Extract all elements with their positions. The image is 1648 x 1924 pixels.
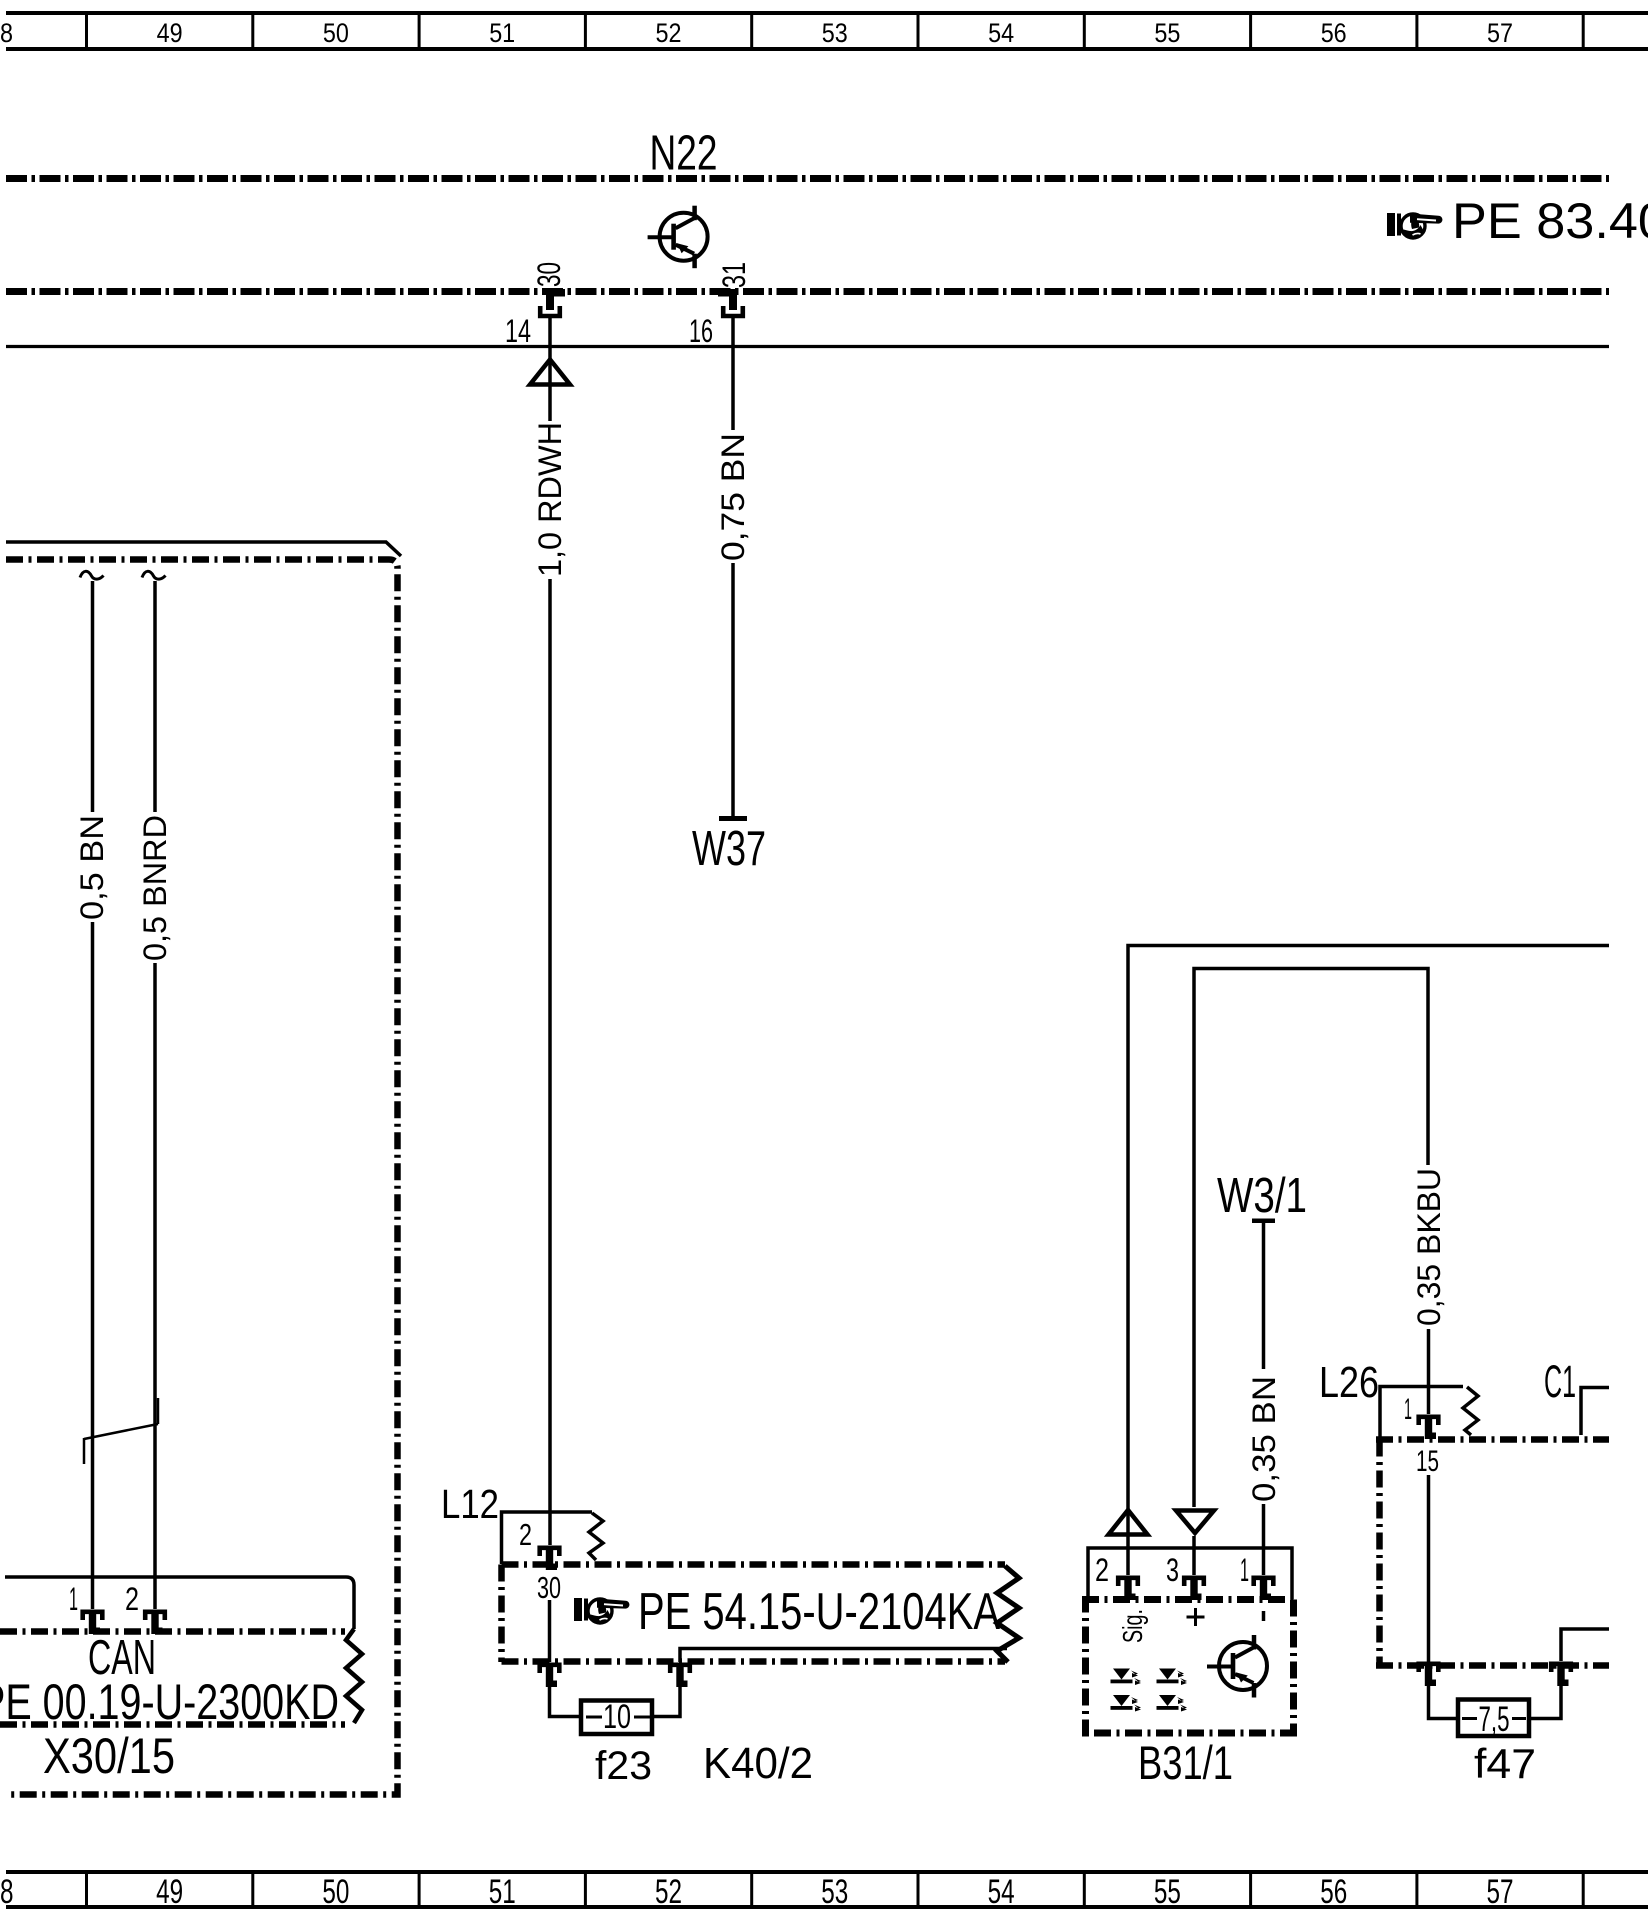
svg-text:N22: N22 bbox=[650, 127, 718, 181]
svg-text:B31/1: B31/1 bbox=[1138, 1736, 1233, 1789]
pin 1 connector L26 bbox=[1419, 1417, 1439, 1439]
svg-text:W37: W37 bbox=[692, 822, 766, 876]
pin 31 connector bbox=[718, 289, 743, 316]
svg-text:7,5: 7,5 bbox=[1479, 1700, 1510, 1739]
B31/1 connector housing bbox=[1088, 1548, 1292, 1599]
wire B31/1 pin3 feed bbox=[1194, 969, 1428, 1508]
svg-text:30: 30 bbox=[531, 262, 567, 287]
svg-text:14: 14 bbox=[505, 313, 531, 349]
transistor symbol B31/1 bbox=[1207, 1635, 1267, 1698]
bus line N22 lower bbox=[6, 288, 1609, 295]
svg-text:56: 56 bbox=[1321, 18, 1347, 48]
svg-text:31: 31 bbox=[716, 262, 752, 288]
svg-text:53: 53 bbox=[822, 18, 848, 48]
svg-text:51: 51 bbox=[489, 18, 515, 48]
wire to CAN strip bbox=[5, 1577, 354, 1629]
svg-text:50: 50 bbox=[323, 18, 349, 48]
B31/1 dash-dot box bbox=[1082, 1600, 1297, 1737]
svg-text:49: 49 bbox=[156, 1873, 183, 1911]
svg-text:57: 57 bbox=[1487, 1873, 1514, 1911]
CAN harness strip top bbox=[0, 1628, 345, 1635]
svg-text:Sig.: Sig. bbox=[1117, 1609, 1148, 1643]
pin connector f47 left bbox=[1419, 1664, 1439, 1686]
wire to fuse f47 right bbox=[1529, 1686, 1561, 1719]
svg-text:X30/15: X30/15 bbox=[43, 1728, 175, 1784]
LED row 1 bbox=[1111, 1669, 1142, 1686]
svg-text:PE 54.15-U-2104KA: PE 54.15-U-2104KA bbox=[638, 1583, 1000, 1641]
terminal bar W37 bbox=[719, 816, 747, 821]
svg-text:48: 48 bbox=[0, 18, 13, 48]
fuse f47 bbox=[1458, 1700, 1529, 1737]
direction arrow down bbox=[1176, 1511, 1214, 1534]
wire along X30/15 box top bbox=[6, 542, 401, 556]
K40/2 jagged edge bbox=[997, 1566, 1019, 1662]
bottom ruler numbers bbox=[0, 1873, 1514, 1911]
CAN harness strip bottom bbox=[0, 1721, 345, 1728]
C1 box corner bbox=[1581, 1388, 1609, 1436]
wire 0,35 BKBU lower segment bbox=[1427, 1329, 1431, 1414]
K40/2 dash-dot box bbox=[502, 1565, 1006, 1663]
LED row 2 bbox=[1111, 1695, 1142, 1712]
wire 0,75 BN bbox=[731, 316, 735, 430]
svg-text:C1: C1 bbox=[1544, 1356, 1576, 1407]
svg-text:56: 56 bbox=[1320, 1873, 1347, 1911]
svg-text:2: 2 bbox=[125, 1581, 139, 1617]
svg-text:15: 15 bbox=[1416, 1445, 1439, 1478]
svg-text:0,5 BN: 0,5 BN bbox=[74, 815, 110, 920]
wire to fuse f23 left bbox=[550, 1687, 582, 1717]
svg-text:0,35 BN: 0,35 BN bbox=[1246, 1376, 1282, 1502]
svg-text:3: 3 bbox=[1166, 1552, 1179, 1588]
wire to fuse f23 right bbox=[652, 1687, 680, 1717]
wire 0,5 BNRD bbox=[153, 581, 157, 812]
top ruler bbox=[6, 11, 1648, 51]
svg-text:1: 1 bbox=[69, 1581, 78, 1617]
svg-text:0,75 BN: 0,75 BN bbox=[715, 433, 751, 561]
wire 0,35 BN bbox=[1262, 1223, 1266, 1369]
pin connector K40/2 right bbox=[670, 1665, 690, 1687]
wire to fuse f47 left bbox=[1429, 1686, 1459, 1719]
pin 1 connector B31/1 bbox=[1254, 1578, 1274, 1600]
svg-text:1,0 RDWH: 1,0 RDWH bbox=[532, 422, 568, 577]
pin connector f47 right bbox=[1551, 1664, 1571, 1686]
CAN strip jagged edge bbox=[346, 1629, 362, 1723]
L12 box bbox=[502, 1512, 593, 1564]
wire inside lower-right box bbox=[1427, 1475, 1431, 1666]
pin 2 connector X30/15 bbox=[145, 1612, 165, 1634]
hand icon PE 83.40 bbox=[1387, 213, 1442, 238]
crossover jog bbox=[84, 1398, 158, 1464]
pin connector K40/2 left bbox=[540, 1665, 560, 1687]
svg-text:f47: f47 bbox=[1474, 1740, 1536, 1787]
twisted-pair squiggle wire 1 bbox=[80, 571, 104, 579]
svg-text:50: 50 bbox=[322, 1873, 349, 1911]
svg-text:54: 54 bbox=[988, 1873, 1015, 1911]
L26 box bbox=[1380, 1387, 1463, 1440]
svg-text:K40/2: K40/2 bbox=[703, 1739, 813, 1788]
svg-text:52: 52 bbox=[655, 1873, 682, 1911]
top ruler numbers bbox=[0, 18, 1513, 48]
pin 30 connector bbox=[540, 289, 565, 316]
svg-text:16: 16 bbox=[689, 313, 713, 349]
svg-text:W3/1: W3/1 bbox=[1217, 1169, 1307, 1223]
svg-text:1: 1 bbox=[1404, 1393, 1412, 1426]
svg-text:48: 48 bbox=[0, 1873, 14, 1911]
wire 1,0 RDWH bbox=[548, 316, 552, 421]
bus line N22 upper bbox=[6, 175, 1609, 182]
hand icon PE 54.15 bbox=[574, 1598, 629, 1623]
svg-text:53: 53 bbox=[821, 1873, 848, 1911]
svg-text:1: 1 bbox=[1240, 1552, 1249, 1588]
svg-text:49: 49 bbox=[157, 18, 183, 48]
transistor symbol N22 bbox=[648, 206, 708, 269]
svg-text:51: 51 bbox=[489, 1873, 516, 1911]
twisted-pair squiggle wire 2 bbox=[142, 571, 166, 579]
bottom ruler bbox=[6, 1870, 1648, 1909]
svg-text:2: 2 bbox=[519, 1517, 532, 1552]
pin 2 connector L12 bbox=[540, 1548, 560, 1570]
pin 3 connector B31/1 bbox=[1184, 1578, 1204, 1600]
pin 1 connector X30/15 bbox=[83, 1612, 103, 1634]
svg-text:55: 55 bbox=[1154, 1873, 1181, 1911]
svg-text:54: 54 bbox=[988, 18, 1014, 48]
svg-text:0,35 BKBU: 0,35 BKBU bbox=[1411, 1168, 1447, 1326]
horizontal rail bbox=[6, 345, 1609, 348]
svg-text:PE 00.19-U-2300KD: PE 00.19-U-2300KD bbox=[0, 1674, 339, 1730]
plus label bbox=[1187, 1608, 1205, 1626]
svg-text:52: 52 bbox=[656, 18, 682, 48]
wire B31/1 pin2 feed bbox=[1128, 946, 1609, 1508]
jumper wire inside box to right bbox=[1561, 1629, 1609, 1661]
svg-text:f23: f23 bbox=[595, 1744, 652, 1788]
svg-text:L12: L12 bbox=[441, 1481, 499, 1527]
minus label bbox=[1262, 1611, 1266, 1621]
pin 2 connector B31/1 bbox=[1118, 1578, 1138, 1600]
jumper wire inside K40/2 bbox=[680, 1649, 1007, 1663]
svg-text:PE 83.40: PE 83.40 bbox=[1452, 193, 1648, 249]
wire inside K40/2 bbox=[548, 1600, 552, 1662]
direction arrow up bbox=[1109, 1510, 1148, 1535]
L12 jagged edge bbox=[589, 1513, 603, 1560]
svg-text:30: 30 bbox=[537, 1570, 561, 1605]
L26 jagged edge bbox=[1463, 1387, 1478, 1435]
svg-text:55: 55 bbox=[1154, 18, 1180, 48]
lower-right dash-dot box bbox=[1376, 1440, 1609, 1667]
svg-text:0,5 BNRD: 0,5 BNRD bbox=[137, 815, 173, 961]
svg-text:10: 10 bbox=[603, 1698, 631, 1736]
fuse f23 bbox=[581, 1701, 652, 1735]
terminal bar W3/1 bbox=[1252, 1219, 1275, 1224]
wire 0,5 BN bbox=[91, 581, 95, 812]
svg-text:L26: L26 bbox=[1319, 1358, 1379, 1407]
svg-text:2: 2 bbox=[1095, 1552, 1109, 1588]
svg-text:57: 57 bbox=[1487, 18, 1513, 48]
X30/15 harness dash-dot box bbox=[6, 560, 398, 1795]
direction arrow bbox=[530, 360, 570, 385]
